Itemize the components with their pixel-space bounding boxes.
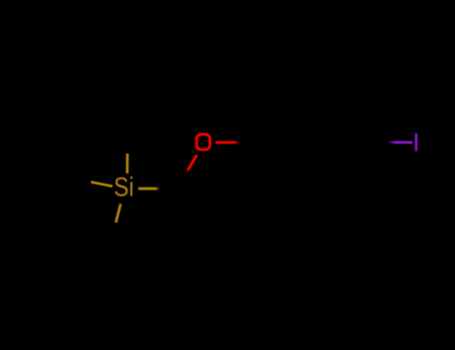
bond Si-C right (silicon half, fades toward carbon): [138, 187, 160, 190]
atom label I (iodine): [415, 133, 418, 151]
bond O-C(ring) horizontal (oxygen half, fades toward ring carbon): [216, 141, 240, 144]
bond Si-CH3 left (methyl): [91, 182, 113, 186]
bond Si-CH3 up (methyl): [126, 154, 129, 174]
bond C-O diagonal (oxygen half, fades toward carbon): [187, 155, 197, 172]
svg-text:Si: Si: [114, 173, 134, 202]
atom label O (oxygen, drawn as ring): [197, 134, 210, 149]
bond C(ring)-I (iodine half, fades toward ring carbon): [388, 141, 413, 144]
bond Si-CH3 down-left (methyl): [116, 204, 121, 223]
